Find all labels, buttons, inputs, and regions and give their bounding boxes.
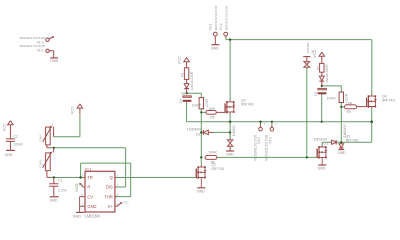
svg-text:1N5400: 1N5400: [187, 127, 202, 132]
svg-text:1N5408: 1N5408: [306, 43, 310, 54]
svg-text:IRF740: IRF740: [346, 137, 360, 142]
svg-text:100nF: 100nF: [14, 142, 24, 146]
svg-text:GND: GND: [50, 59, 58, 63]
svg-text:Q: Q: [110, 175, 113, 180]
svg-text:VB: VB: [181, 91, 185, 95]
svg-text:MKDSN1.5/2-5.08: MKDSN1.5/2-5.08: [214, 6, 218, 31]
svg-text:X1-1: X1-1: [37, 48, 44, 52]
svg-text:10R: 10R: [208, 107, 215, 111]
svg-text:1N5404: 1N5404: [232, 125, 236, 136]
svg-text:R9: R9: [347, 110, 351, 114]
svg-text:VCC: VCC: [45, 36, 51, 40]
svg-text:THR: THR: [104, 194, 112, 199]
svg-text:VCC: VCC: [71, 106, 75, 114]
svg-text:220R: 220R: [325, 64, 329, 73]
svg-text:IRF740: IRF740: [211, 166, 225, 171]
svg-text:GND: GND: [318, 167, 326, 171]
svg-text:100nF: 100nF: [192, 104, 202, 108]
svg-text:C1: C1: [58, 178, 62, 182]
svg-text:C5: C5: [314, 92, 318, 96]
svg-text:D2: D2: [196, 132, 201, 136]
svg-text:IRF740: IRF740: [382, 97, 396, 102]
svg-text:R5: R5: [210, 116, 214, 120]
svg-text:C2: C2: [14, 135, 18, 139]
svg-text:1N5400: 1N5400: [313, 136, 327, 141]
svg-text:GND: GND: [197, 190, 205, 194]
svg-text:D3: D3: [323, 142, 328, 146]
svg-text:TR: TR: [87, 175, 93, 180]
svg-text:R3: R3: [181, 72, 185, 76]
svg-text:GND: GND: [73, 214, 82, 218]
svg-text:X2-1: X2-1: [209, 23, 213, 30]
svg-text:LM555N: LM555N: [85, 213, 101, 218]
svg-text:R7: R7: [317, 66, 321, 70]
svg-text:DIS: DIS: [106, 185, 113, 190]
svg-text:100R: 100R: [208, 151, 217, 155]
svg-text:C3: C3: [179, 99, 183, 103]
svg-text:GND: GND: [211, 47, 219, 51]
svg-text:D5: D5: [311, 50, 315, 54]
svg-text:100R: 100R: [205, 99, 209, 108]
svg-text:100nF: 100nF: [327, 97, 337, 101]
svg-text:IRF740: IRF740: [241, 101, 255, 106]
svg-text:1N4148: 1N4148: [325, 73, 329, 83]
svg-text:10R: 10R: [346, 101, 353, 105]
svg-text:GND: GND: [87, 204, 96, 209]
svg-text:VCC: VCC: [178, 56, 182, 64]
svg-text:X3-1: X3-1: [268, 137, 272, 144]
svg-text:CV: CV: [87, 194, 93, 199]
svg-text:GND: GND: [50, 198, 58, 202]
svg-text:GND: GND: [226, 153, 234, 157]
svg-text:R: R: [87, 185, 90, 190]
svg-text:X3-2: X3-2: [257, 137, 261, 144]
svg-text:220R: 220R: [190, 71, 194, 80]
svg-text:R1: R1: [42, 137, 46, 141]
svg-text:2.2nF: 2.2nF: [58, 189, 67, 193]
svg-text:MKDSN1.5/2-5.08: MKDSN1.5/2-5.08: [224, 6, 228, 31]
svg-text:GND: GND: [5, 153, 13, 157]
svg-text:R2: R2: [42, 163, 46, 167]
svg-text:GND: GND: [338, 151, 346, 155]
svg-text:VCC: VCC: [122, 201, 128, 205]
svg-text:X2-2: X2-2: [219, 23, 223, 30]
svg-text:VCO: VCO: [75, 184, 79, 192]
svg-text:V+: V+: [108, 204, 114, 209]
svg-text:IC1: IC1: [85, 167, 91, 172]
svg-text:1N4148: 1N4148: [190, 80, 194, 90]
svg-text:VCC: VCC: [2, 123, 6, 131]
